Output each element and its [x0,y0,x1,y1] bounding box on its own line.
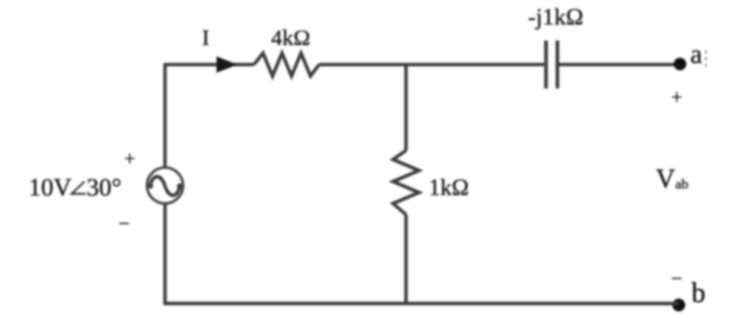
label + polarity of Vab [671,86,682,108]
label a [690,39,702,69]
wire top-left horizontal (source to arrow/resistor) [165,63,254,66]
svg-text:I: I [202,25,209,50]
svg-text:10V: 10V [29,175,72,202]
label Vab [656,164,689,194]
wire resistor to capacitor [319,63,544,66]
voltage source VS circle [147,168,183,204]
wire capacitor to node a [559,63,678,66]
current direction arrow I [217,56,238,72]
svg-text:Vab: Vab [656,164,689,194]
label b [692,278,706,309]
svg-text:−: − [118,213,129,235]
wire left vertical upper (top rail to source +) [163,63,166,168]
svg-text:-j1kΩ: -j1kΩ [528,5,583,31]
svg-text:−: − [671,268,682,290]
resistor R2 1kΩ [393,151,419,215]
label 30° of source [87,175,122,202]
label 4kΩ [271,25,310,50]
wire left vertical lower (source - to bottom rail) [163,204,166,305]
svg-text:4kΩ: 4kΩ [271,25,310,50]
voltage source sine wave [148,177,182,196]
label - of source [118,213,129,235]
angle symbol of source label [72,182,86,194]
label -j1kΩ [528,5,583,31]
resistor R1 4kΩ [254,53,319,76]
stray dashed mark right of a [705,51,707,70]
label - polarity of Vab [671,268,682,290]
node a terminal dot [674,58,687,71]
node b terminal dot [672,299,685,312]
svg-text:30°: 30° [87,175,122,202]
wire middle vertical lower (R2 to bottom rail) [404,215,407,304]
svg-text:+: + [671,86,682,108]
wire bottom rail [164,302,679,305]
wire middle vertical upper (top rail to R2) [404,65,407,151]
capacitor C1 right plate [556,41,560,89]
label 1kΩ [429,175,469,200]
capacitor C1 left plate [544,41,548,89]
label I [202,25,209,50]
svg-text:a: a [690,39,702,69]
svg-text:1kΩ: 1kΩ [429,175,469,200]
svg-text:+: + [124,148,135,170]
svg-text:b: b [692,278,706,309]
label + of source [124,148,135,170]
label 10V∠30° [29,175,72,202]
